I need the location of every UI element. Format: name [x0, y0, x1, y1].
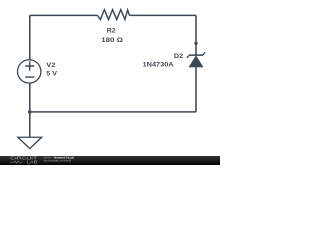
- svg-text:5 V: 5 V: [46, 71, 57, 78]
- wire: top horizontal left of R2: [30, 14, 98, 16]
- label 5 V: [46, 71, 57, 78]
- footer text: url: [44, 159, 72, 163]
- wire: bottom horizontal: [30, 111, 196, 113]
- V2 minus sign: [25, 76, 34, 78]
- CircuitLab logo: CIRCUIT: [10, 156, 37, 161]
- junction dot at bottom-left node: [28, 110, 32, 114]
- svg-text:R2: R2: [107, 28, 116, 35]
- footer text: circuit title: [54, 156, 74, 160]
- ground symbol (hollow triangle): [18, 137, 42, 148]
- svg-text:http://circuitlab.com/c4sc99: http://circuitlab.com/c4sc99: [44, 159, 72, 163]
- svg-text:LAB: LAB: [27, 160, 38, 165]
- resistor R2 zigzag: [98, 10, 130, 20]
- svg-text:1N4730A: 1N4730A: [143, 61, 174, 68]
- wire: ground stub: [29, 112, 31, 137]
- wire: right vertical from top-right corner to D2 cathode: [195, 15, 197, 55]
- wire: left vertical from top-left corner to V2 top: [29, 15, 31, 60]
- svg-text:D2: D2: [174, 53, 184, 60]
- footer text: author: [44, 156, 53, 160]
- wire: right vertical from D2 anode to bottom-right corner: [195, 67, 197, 112]
- svg-text:180 Ω: 180 Ω: [101, 37, 123, 44]
- label R2: [107, 28, 116, 35]
- diode D2 zener cathode bar with bent ends: [187, 52, 205, 58]
- node dot at D2 cathode terminal: [194, 42, 197, 45]
- CircuitLab logo: wire squiggle + LAB: [11, 160, 38, 165]
- voltage source V2 circle: [18, 60, 41, 83]
- diode D2 anode triangle (filled, pointing up): [189, 56, 202, 67]
- V2 plus sign: [25, 61, 34, 70]
- footer bar: [0, 156, 220, 165]
- svg-text:V2: V2: [46, 62, 56, 69]
- wire: left vertical from V2 bottom to junction: [29, 83, 31, 112]
- label 180 Ω: [101, 37, 123, 44]
- label 1N4730A: [143, 61, 174, 68]
- label D2: [174, 53, 184, 60]
- label V2: [46, 62, 56, 69]
- wire: top horizontal right of R2: [130, 14, 197, 16]
